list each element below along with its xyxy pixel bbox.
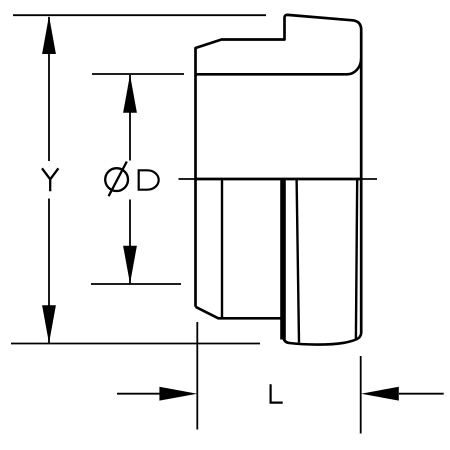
D label [138, 169, 159, 190]
Y dimension top extension line [13, 14, 266, 16]
dia-D bottom arrowhead [123, 246, 137, 284]
L right arrowhead [361, 387, 399, 401]
L left dimension tail [117, 393, 160, 395]
Y dimension bottom extension line [11, 343, 260, 345]
Y bottom arrowhead [42, 305, 56, 343]
tube far-wall inner line [356, 179, 357, 339]
part body silhouette [196, 15, 362, 334]
L left arrowhead [159, 387, 197, 401]
diameter symbol slash [109, 162, 127, 197]
tube bottom-left chamfer [196, 307, 282, 319]
shoulder edge left stub [179, 178, 196, 180]
L right dimension tail [399, 393, 444, 395]
dia-D top arrowhead [123, 75, 137, 113]
L dimension right extension line [360, 356, 362, 434]
Y label [42, 168, 58, 191]
dia-D dimension bottom extension line [91, 283, 181, 285]
tube inner-left edge [221, 179, 223, 318]
tube bottom far edge arc [283, 334, 361, 345]
diameter symbol circle [105, 168, 128, 191]
Y dimension line [48, 17, 50, 343]
tube inner-right near line [297, 179, 299, 343]
tube thick center double line [280, 179, 286, 340]
dia-D dimension line [129, 75, 131, 284]
L dimension left extension line [196, 322, 198, 430]
L label [271, 384, 283, 402]
Y top arrowhead [42, 16, 56, 54]
dia-D dimension top extension line [92, 73, 184, 75]
shoulder edge at mid height [196, 178, 362, 181]
flange underside edge [196, 58, 362, 74]
shoulder edge right stub [361, 178, 377, 180]
